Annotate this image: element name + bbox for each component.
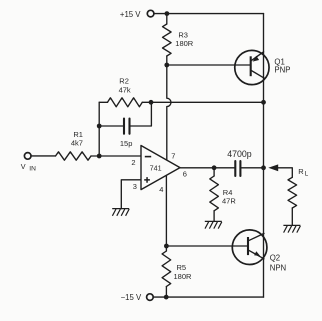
node: pin 2 summing junction (97, 154, 102, 159)
wire pin 3 to ground (121, 180, 141, 209)
node: cap 15p left junction (97, 124, 102, 129)
wire op-amp output pin 6 (180, 167, 234, 169)
transistor Q1 PNP arrow (253, 56, 260, 62)
svg-text:180R: 180R (174, 272, 193, 281)
node: output/RL junction (261, 165, 266, 170)
node: R2 right / cap junction (149, 100, 154, 105)
wire R4 to ground (213, 211, 215, 222)
svg-text:L: L (305, 170, 309, 177)
wire cap 15p left (99, 125, 123, 127)
terminal -15V (147, 294, 154, 301)
wire R4 top (213, 168, 215, 176)
svg-text:741: 741 (150, 163, 162, 172)
op-amp U1 741 triangle (141, 146, 180, 190)
svg-text:R: R (298, 167, 304, 176)
transistor Q2 base bar (247, 237, 249, 255)
svg-text:7: 7 (171, 152, 175, 161)
wire R3 bottom (166, 56, 168, 65)
op-amp minus input symbol (145, 156, 151, 158)
wire RL arrow to resistor (278, 168, 292, 178)
transistor Q2 collector segment (249, 233, 265, 240)
wire right column (Q1 emitter/collector to Q2, output bus) (263, 14, 265, 298)
svg-text:47k: 47k (119, 86, 131, 95)
svg-text:2: 2 (131, 158, 135, 167)
wire R2 left vertical to pin2 node (98, 102, 100, 156)
svg-text:NPN: NPN (270, 264, 286, 273)
transistor Q1 circle (235, 50, 269, 84)
node: feedback / output bus junction (261, 100, 266, 105)
wire top rail +15V (154, 13, 264, 15)
svg-text:R5: R5 (177, 263, 187, 272)
svg-text:R2: R2 (119, 76, 129, 85)
svg-text:47R: 47R (222, 196, 236, 205)
wire V IN to R1 (31, 155, 56, 157)
transistor Q2 NPN arrow (254, 251, 260, 256)
transistor Q1 collector segment (251, 70, 265, 78)
node: pin4/Q2 base/R5 junction (164, 244, 169, 249)
ground (R4) (205, 221, 222, 228)
transistor Q2 circle (232, 230, 267, 265)
wire Q2 base (166, 245, 247, 247)
capacitor C 4700p (235, 161, 240, 176)
arrow into RL node (268, 164, 278, 171)
svg-text:Q2: Q2 (270, 254, 280, 263)
capacitor C 15p (124, 119, 130, 134)
transistor Q1 emitter segment (251, 52, 264, 61)
op-amp plus input symbol (144, 177, 150, 183)
svg-text:V: V (21, 162, 26, 171)
wire cap 4700p right to output bus (241, 167, 263, 169)
wire feedback node to output (R2/C to collectors junction) (151, 101, 264, 103)
ground (pin 3) (112, 209, 129, 216)
wire R5 top stub (165, 246, 167, 251)
wire bottom rail -15V (153, 296, 264, 298)
svg-text:15p: 15p (120, 139, 133, 148)
svg-text:180R: 180R (175, 39, 194, 48)
node: rail/R3 junction (165, 11, 170, 16)
resistor R3 180R (163, 24, 172, 56)
svg-text:4k7: 4k7 (71, 139, 83, 148)
wire R2 left stub (99, 101, 107, 103)
wire pin7 supply with hop over feedback (167, 65, 171, 160)
terminal +15V (147, 10, 154, 17)
node: pin6/R4 junction (212, 165, 217, 170)
resistor R2 47k (108, 98, 143, 107)
ground (RL) (283, 225, 300, 232)
svg-text:3: 3 (133, 182, 137, 191)
svg-text:4: 4 (159, 185, 163, 194)
svg-text:+15 V: +15 V (120, 10, 141, 19)
wire cap 15p right up to R2 (131, 102, 152, 126)
wire R2 right stub (142, 101, 151, 103)
node: R5/-15V rail junction (164, 295, 169, 300)
wire Q1 base (167, 64, 250, 66)
transistor Q2 emitter segment (249, 250, 265, 259)
wire RL to ground (291, 208, 293, 225)
resistor R4 47R (210, 176, 219, 211)
wire R5 bottom to -15V rail (165, 287, 167, 298)
node: R3/Q1 base junction (164, 63, 169, 68)
terminal V IN (24, 153, 31, 160)
wire R1 to op-amp pin 2 (91, 155, 141, 157)
wire pin 4 column (165, 175, 167, 246)
svg-text:−15 V: −15 V (121, 293, 142, 302)
svg-text:PNP: PNP (274, 66, 290, 75)
wire +15V to R3 (166, 14, 168, 24)
transistor Q1 base bar (250, 56, 252, 76)
svg-text:4700p: 4700p (227, 149, 252, 159)
svg-text:6: 6 (183, 169, 187, 178)
svg-text:IN: IN (29, 166, 36, 173)
resistor RL (288, 177, 297, 208)
resistor R1 4k7 (56, 152, 92, 160)
resistor R5 180R (162, 251, 171, 287)
